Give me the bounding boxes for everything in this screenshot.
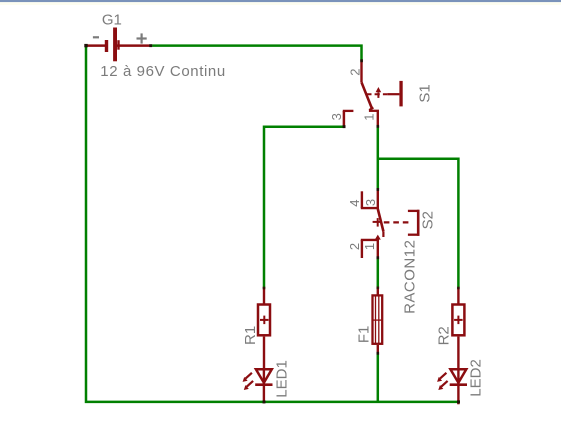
svg-text:12 à 96V Continu: 12 à 96V Continu bbox=[100, 63, 226, 80]
svg-text:RACON12: RACON12 bbox=[402, 240, 419, 314]
wire: left vertical from battery minus down and bottom horizontal rail bbox=[86, 44, 458, 402]
R2 label bbox=[436, 326, 453, 345]
S2 actuator cross bbox=[373, 218, 382, 227]
junction: R2 top to net bbox=[457, 287, 460, 290]
LED LED2 bbox=[437, 369, 467, 404]
wire: S1 pin1 down to S2 pin3 bbox=[377, 126, 380, 189]
R1 label bbox=[242, 326, 259, 345]
S1 toggle bar bbox=[399, 81, 402, 107]
LED1 label bbox=[274, 360, 291, 398]
battery plus sign bbox=[137, 33, 147, 43]
junction: S1 pin1 to net bbox=[377, 125, 380, 128]
svg-text:LED1: LED1 bbox=[274, 360, 291, 398]
window top border line bbox=[0, 0, 561, 5]
S2 value RACON12 bbox=[402, 240, 419, 314]
svg-text:F1: F1 bbox=[355, 326, 372, 344]
junction: LED1 to bottom rail bbox=[263, 400, 266, 403]
junction: battery plus to net bbox=[149, 44, 152, 47]
switch S1 bbox=[343, 61, 379, 127]
junction: S2 pin1 to net bbox=[377, 256, 380, 259]
junction: battery minus to net bbox=[84, 44, 87, 47]
wire: branch right to R2 bbox=[378, 159, 459, 288]
svg-text:R1: R1 bbox=[242, 326, 259, 345]
fuse F1 bbox=[372, 288, 383, 353]
junction: F1 bottom to net bbox=[377, 352, 380, 355]
svg-text:3: 3 bbox=[363, 199, 378, 206]
S2 pin 1 label bbox=[362, 243, 377, 250]
svg-text:R2: R2 bbox=[436, 326, 453, 345]
junction: S2 pin3 to net bbox=[377, 188, 380, 191]
F1 label bbox=[355, 326, 372, 344]
S1 label bbox=[416, 84, 433, 102]
svg-text:4: 4 bbox=[347, 199, 362, 206]
S2 pin 3 label bbox=[363, 199, 378, 206]
S1 pin 3 label bbox=[329, 113, 344, 120]
wire: S1 pin3 left and down to R1 bbox=[264, 127, 344, 288]
junction: S1 pin3 to net bbox=[343, 125, 346, 128]
S1 pin 1 label bbox=[362, 113, 377, 120]
svg-text:1: 1 bbox=[362, 243, 377, 250]
LED2 label bbox=[467, 359, 484, 397]
battery value 12 à 96V Continu bbox=[100, 63, 226, 80]
S1 pin 2 label bbox=[347, 68, 362, 75]
junction: LED2 to bottom rail bbox=[457, 400, 460, 403]
svg-text:2: 2 bbox=[347, 68, 362, 75]
wire: S2 pin1 down to F1 bbox=[377, 258, 380, 287]
S1 actuator dashed link bbox=[366, 93, 399, 95]
battery G1 bbox=[86, 28, 150, 62]
svg-text:G1: G1 bbox=[102, 12, 122, 29]
svg-text:3: 3 bbox=[329, 113, 344, 120]
wire: top net from battery to S1 pin2 bbox=[152, 46, 361, 61]
S1 actuator arrow bbox=[376, 87, 382, 98]
S2 pin 4 label bbox=[347, 199, 362, 206]
S2 actuator dashed link bbox=[384, 221, 409, 223]
svg-text:2: 2 bbox=[347, 243, 362, 250]
resistor R2 bbox=[452, 288, 464, 369]
resistor R1 bbox=[258, 288, 270, 369]
junction: F1 top to net bbox=[377, 287, 380, 290]
battery minus sign bbox=[93, 36, 99, 38]
battery label G1 bbox=[102, 12, 122, 29]
S2 moving contact arrowhead bbox=[375, 235, 381, 240]
svg-text:S1: S1 bbox=[416, 84, 433, 102]
svg-text:LED2: LED2 bbox=[467, 359, 484, 397]
LED LED1 bbox=[243, 369, 273, 403]
S2 pin 2 label bbox=[347, 243, 362, 250]
S2 rocker bracket bbox=[408, 210, 420, 236]
wire: F1 bottom to bottom rail bbox=[377, 353, 380, 402]
svg-text:S2: S2 bbox=[419, 211, 436, 229]
switch S2 bbox=[361, 190, 384, 258]
svg-text:1: 1 bbox=[362, 113, 377, 120]
S2 label bbox=[419, 211, 436, 229]
junction: R1 top to net bbox=[263, 287, 266, 290]
junction: S1 pin2 to net bbox=[360, 59, 363, 62]
